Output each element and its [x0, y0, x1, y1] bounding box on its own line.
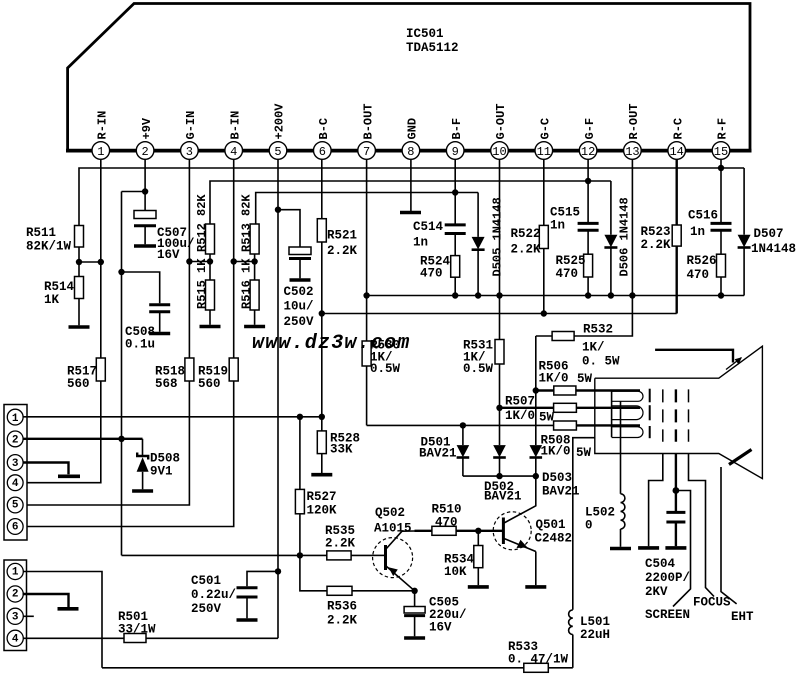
- svg-text:R521: R521: [327, 229, 357, 243]
- wire R531 to R507 row: [496, 405, 502, 411]
- wire FOCUS lead: [689, 454, 732, 610]
- svg-text:2: 2: [141, 145, 148, 159]
- connector P1 pin 6: [7, 519, 23, 535]
- ground C507: [134, 244, 156, 248]
- wire C508 elbow: [122, 272, 160, 303]
- ground C502: [290, 278, 311, 282]
- svg-text:15: 15: [714, 145, 728, 159]
- svg-text:250V: 250V: [191, 602, 222, 616]
- ground G1: [638, 546, 659, 550]
- EHT anode stroke: [729, 450, 752, 465]
- pin 3 G-IN: [181, 111, 199, 160]
- pin 7 B-OUT: [358, 103, 376, 159]
- capacitor C502: [284, 247, 315, 329]
- svg-text:R511: R511: [26, 226, 56, 240]
- svg-text:14: 14: [669, 145, 683, 159]
- svg-text:2.2K: 2.2K: [641, 238, 672, 252]
- ground C504: [665, 546, 686, 550]
- pin 6 B-C: [314, 118, 332, 159]
- wire SCREEN lead: [645, 491, 691, 623]
- wire pin15 R-F line: [720, 159, 722, 223]
- pin 4 B-IN: [225, 111, 243, 160]
- resistor R531: [463, 339, 504, 408]
- svg-text:0.22u/: 0.22u/: [191, 588, 236, 602]
- resistor R521: [317, 219, 357, 258]
- svg-text:1K/0: 1K/0: [539, 372, 569, 386]
- svg-text:2KV: 2KV: [645, 585, 668, 599]
- svg-text:EHT: EHT: [731, 610, 754, 624]
- svg-text:R527: R527: [307, 490, 337, 504]
- diode D501: [419, 425, 469, 476]
- svg-text:G-OUT: G-OUT: [494, 103, 508, 139]
- wire C502 elbow: [278, 210, 300, 247]
- connector P1 pin 5: [7, 497, 23, 513]
- wire P1-2 to D508: [23, 436, 143, 442]
- svg-text:G-F: G-F: [583, 118, 597, 140]
- svg-text:5: 5: [274, 145, 281, 159]
- wire R530 to R508 row: [367, 422, 554, 428]
- connector P2 pin 1: [7, 563, 23, 579]
- svg-text:R532: R532: [583, 323, 613, 337]
- svg-text:1K: 1K: [44, 293, 60, 307]
- connector P1 pin 1: [7, 409, 23, 425]
- resistor R526: [687, 254, 726, 296]
- capacitor C516: [688, 209, 732, 255]
- svg-text:R510: R510: [432, 503, 462, 517]
- svg-text:Q502: Q502: [375, 506, 405, 520]
- svg-text:L501: L501: [580, 615, 610, 629]
- svg-text:0. 47/1W: 0. 47/1W: [508, 653, 569, 667]
- wire net B-F rail: [256, 193, 478, 225]
- wire pin13 R-OUT line: [574, 159, 632, 336]
- svg-text:IC501: IC501: [406, 27, 444, 41]
- resistor R524: [420, 255, 460, 296]
- svg-text:0.5W: 0.5W: [370, 362, 401, 376]
- svg-text:13: 13: [625, 145, 639, 159]
- svg-text:560: 560: [198, 377, 221, 391]
- pin 12 G-F: [579, 118, 597, 159]
- node R506 feed: [533, 387, 539, 393]
- ground R514: [69, 325, 90, 329]
- svg-text:B-F: B-F: [450, 118, 464, 140]
- svg-text:16V: 16V: [157, 248, 180, 262]
- svg-text:82K/1W: 82K/1W: [26, 240, 72, 254]
- svg-text:R515 1K: R515 1K: [195, 258, 209, 309]
- connector P2 pin 4: [7, 630, 23, 646]
- svg-text:1: 1: [12, 566, 19, 578]
- ground pin8: [400, 211, 421, 215]
- svg-text:BAV21: BAV21: [484, 490, 522, 504]
- svg-text:250V: 250V: [284, 315, 315, 329]
- diode D502: [484, 408, 522, 504]
- svg-text:+200V: +200V: [273, 103, 287, 140]
- resistor R535: [325, 524, 356, 560]
- svg-text:0.5W: 0.5W: [463, 362, 494, 376]
- wire R511-R514 to pin1: [76, 259, 104, 265]
- wire pin2 to C507/C508 elbow: [122, 191, 146, 193]
- wire pin12 G-F line: [587, 159, 589, 223]
- wire pin10 G-OUT line: [499, 159, 501, 339]
- svg-text:470: 470: [435, 516, 458, 530]
- svg-text:11: 11: [537, 145, 551, 159]
- wire G2 screen feed arrow: [655, 350, 742, 370]
- svg-text:3: 3: [12, 612, 19, 624]
- svg-text:5W: 5W: [576, 446, 592, 460]
- wire R513-R516 to pin4: [231, 258, 258, 264]
- resistor R536: [327, 586, 358, 627]
- wire pin11 G-C line: [543, 159, 545, 313]
- wire G2 to C504: [673, 454, 680, 513]
- resistor R532: [536, 323, 620, 369]
- pin 8 GND: [402, 118, 420, 159]
- svg-text:R513 82K: R513 82K: [240, 194, 254, 252]
- ground C505: [404, 636, 425, 640]
- svg-text:6: 6: [319, 145, 326, 159]
- svg-text:D503: D503: [542, 471, 572, 485]
- svg-text:D507: D507: [754, 227, 784, 241]
- wire R512-R515 to pin3: [186, 258, 213, 264]
- svg-text:C501: C501: [191, 574, 221, 588]
- pin 5 +200V: [269, 103, 287, 160]
- svg-text:A1015: A1015: [374, 522, 412, 536]
- svg-text:B-C: B-C: [317, 118, 331, 140]
- svg-text:C504: C504: [645, 557, 676, 571]
- inductor L501: [569, 610, 610, 668]
- svg-text:Q501: Q501: [536, 518, 566, 532]
- wire pin4 B-IN line: [23, 159, 234, 526]
- pin 14 R-C: [668, 118, 686, 159]
- svg-text:R525: R525: [556, 254, 586, 268]
- ground R515: [200, 325, 221, 329]
- svg-text:3: 3: [12, 458, 19, 470]
- capacitor C507: [134, 211, 195, 263]
- resistor R508: [541, 421, 641, 460]
- svg-text:5W: 5W: [539, 411, 555, 425]
- svg-text:0. 5W: 0. 5W: [582, 355, 620, 369]
- pin 15 R-F: [712, 118, 730, 159]
- wire P2-1 heater feed: [23, 572, 102, 668]
- resistor R513: [240, 194, 260, 280]
- capacitor C504: [645, 512, 690, 599]
- ground Q501 emitter: [525, 585, 546, 589]
- svg-text:0.1u: 0.1u: [125, 338, 155, 352]
- svg-text:1n: 1n: [690, 225, 705, 239]
- node Q502 emitter / C505: [411, 588, 417, 594]
- svg-text:10u/: 10u/: [284, 300, 314, 314]
- svg-text:R536: R536: [327, 600, 357, 614]
- wire diode common rail: [463, 473, 539, 479]
- IC U501 outline: [66, 4, 752, 151]
- pin 11 G-C: [535, 118, 553, 159]
- svg-text:4: 4: [230, 145, 237, 159]
- wire EHT lead: [721, 467, 754, 624]
- svg-text:6: 6: [12, 522, 19, 534]
- svg-text:2.2K: 2.2K: [325, 537, 356, 551]
- resistor R525: [556, 254, 593, 296]
- CRT heater link bar: [611, 391, 613, 437]
- svg-text:560: 560: [67, 377, 90, 391]
- svg-text:B-OUT: B-OUT: [361, 103, 375, 139]
- watermark: [252, 332, 410, 355]
- capacitor C501: [191, 571, 278, 618]
- wire +9V vertical rail: [121, 192, 123, 556]
- ground P2-2: [58, 607, 79, 611]
- wire P2-4 +200V feed: [23, 637, 278, 639]
- svg-text:4: 4: [12, 634, 19, 646]
- svg-text:SCREEN: SCREEN: [645, 608, 690, 622]
- svg-text:D505 1N4148: D505 1N4148: [491, 197, 505, 276]
- wire pin2 stub: [144, 159, 146, 210]
- resistor R533: [508, 640, 569, 672]
- svg-text:5W: 5W: [577, 372, 593, 386]
- svg-text:470: 470: [420, 267, 443, 281]
- CRT cathode cup 2: [612, 405, 650, 420]
- svg-text:1: 1: [12, 413, 19, 425]
- diode D505: [472, 193, 505, 296]
- resistor R512: [195, 194, 215, 280]
- grid G3 dashed: [688, 389, 690, 441]
- resistor R519: [198, 358, 238, 391]
- svg-text:1K/: 1K/: [582, 341, 605, 355]
- svg-text:33K: 33K: [330, 443, 353, 457]
- svg-text:C502: C502: [284, 285, 314, 299]
- svg-text:FOCUS: FOCUS: [693, 596, 731, 610]
- pin 10 G-OUT: [491, 103, 509, 159]
- svg-text:R514: R514: [44, 280, 75, 294]
- resistor R522: [511, 225, 549, 256]
- wire pin7 B-OUT line: [366, 159, 368, 425]
- connector P1 pin 3: [7, 455, 23, 471]
- svg-text:2200P/: 2200P/: [645, 571, 690, 585]
- wire P1-3 to ground: [23, 463, 69, 475]
- node G-F rail junction: [585, 178, 591, 184]
- svg-text:C515: C515: [550, 206, 580, 220]
- svg-text:R-OUT: R-OUT: [627, 103, 641, 139]
- wire heater drop to L502: [620, 401, 622, 494]
- connector P1 box: [4, 405, 27, 541]
- wire R532 to R506 riser: [535, 336, 537, 391]
- wire cutoff rail: [319, 310, 677, 316]
- resistor R527: [295, 417, 337, 556]
- resistor R514: [44, 277, 84, 326]
- inductor L502: [585, 494, 625, 547]
- resistor R530: [362, 339, 400, 377]
- resistor R511: [26, 226, 84, 277]
- node B-F rail junction: [452, 189, 458, 195]
- wire P1-1 to R527/R528: [23, 414, 325, 420]
- svg-text:L502: L502: [585, 506, 615, 520]
- svg-text:16V: 16V: [429, 621, 452, 635]
- diode D507: [738, 168, 796, 296]
- wire L501 to heater: [573, 438, 595, 610]
- svg-text:12: 12: [581, 145, 595, 159]
- transistor Q502: [373, 506, 415, 591]
- svg-text:1K/0: 1K/0: [505, 409, 535, 423]
- svg-text:R-IN: R-IN: [96, 111, 110, 140]
- svg-text:B-IN: B-IN: [228, 111, 242, 140]
- wire P2-2 to ground: [23, 594, 69, 608]
- svg-text:7: 7: [363, 145, 370, 159]
- pin 13 R-OUT: [624, 103, 642, 159]
- svg-text:G-IN: G-IN: [184, 111, 198, 140]
- capacitor C515: [550, 206, 599, 255]
- resistor R515: [195, 258, 215, 325]
- node C508 tap: [118, 269, 124, 275]
- svg-text:C514: C514: [413, 220, 444, 234]
- connector P2 pin 2: [7, 586, 23, 602]
- diode D506: [604, 181, 631, 296]
- svg-text:D506 1N4148: D506 1N4148: [618, 197, 632, 276]
- wire net G-F rail: [210, 181, 611, 224]
- svg-text:R-C: R-C: [671, 118, 685, 140]
- svg-text:2.2K: 2.2K: [511, 243, 542, 257]
- resistor R528: [317, 417, 360, 473]
- svg-text:GND: GND: [406, 118, 420, 140]
- svg-text:4: 4: [12, 478, 19, 490]
- resistor R510: [415, 503, 479, 536]
- svg-text:2.2K: 2.2K: [327, 244, 358, 258]
- svg-text:G-C: G-C: [539, 118, 553, 140]
- svg-text:2.2K: 2.2K: [327, 614, 358, 628]
- grid G2 dashed: [675, 389, 677, 441]
- svg-text:120K: 120K: [307, 504, 338, 518]
- wire pin14 R-C line: [676, 159, 678, 225]
- svg-text:BAV21: BAV21: [542, 485, 580, 499]
- svg-text:0: 0: [585, 519, 593, 533]
- resistor R507: [500, 395, 641, 425]
- svg-text:BAV21: BAV21: [419, 447, 457, 461]
- svg-text:1K/0: 1K/0: [541, 445, 571, 459]
- wire net R-F top rail: [79, 168, 744, 226]
- svg-text:10: 10: [492, 145, 506, 159]
- svg-text:2: 2: [12, 434, 19, 446]
- node Q501 base: [475, 528, 481, 534]
- svg-text:R507: R507: [505, 395, 535, 409]
- svg-text:2: 2: [12, 589, 19, 601]
- ground L502: [610, 547, 631, 551]
- node C502 tap: [275, 207, 281, 213]
- svg-text:R512 82K: R512 82K: [195, 194, 209, 252]
- wire heater bottom run: [102, 667, 573, 669]
- wire pin6 B-C line: [321, 159, 323, 417]
- ground R516: [244, 325, 265, 329]
- CRT cathode cup 3: [612, 426, 650, 438]
- svg-text:33/1W: 33/1W: [118, 623, 156, 637]
- svg-text:R516 1K: R516 1K: [240, 258, 254, 309]
- connector P1 pin 2: [7, 431, 23, 447]
- node C501 tap: [275, 568, 281, 574]
- svg-text:TDA5112: TDA5112: [406, 41, 459, 55]
- svg-text:1N4148: 1N4148: [751, 242, 796, 256]
- svg-text:470: 470: [687, 268, 710, 282]
- ground C501: [237, 618, 258, 622]
- wire pin3 G-IN line: [23, 159, 189, 505]
- connector P1 pin 4: [7, 475, 23, 491]
- ground R528: [311, 473, 332, 477]
- resistor R506: [536, 360, 640, 396]
- resistor R516: [240, 258, 260, 325]
- svg-text:568: 568: [155, 377, 178, 391]
- pin 1 R-IN: [92, 111, 110, 160]
- capacitor C505: [404, 591, 466, 637]
- svg-text:10K: 10K: [444, 565, 467, 579]
- pin 9 B-F: [446, 118, 464, 159]
- svg-text:C2482: C2482: [535, 532, 573, 546]
- svg-text:R522: R522: [511, 227, 541, 241]
- svg-text:D508: D508: [150, 452, 180, 466]
- node +9V junction pin2: [142, 188, 148, 194]
- pin 2 +9V: [136, 117, 154, 159]
- ground D508: [132, 489, 153, 493]
- wire G1 to ground: [649, 454, 663, 547]
- wire P2-3 stub: [23, 615, 34, 617]
- svg-text:R526: R526: [687, 254, 717, 268]
- wire feedback bottom rail: [363, 292, 744, 298]
- capacitor C514: [413, 220, 466, 256]
- wire R536 branch: [300, 555, 415, 590]
- diode D503: [530, 391, 580, 499]
- ground P1-3: [58, 474, 80, 478]
- svg-text:1: 1: [97, 145, 104, 159]
- CRT cathode cup 1: [612, 389, 650, 403]
- connector P2 pin 3: [7, 608, 23, 624]
- svg-text:5: 5: [12, 500, 19, 512]
- svg-text:R-F: R-F: [716, 118, 730, 140]
- zener D508: [137, 439, 180, 490]
- svg-text:+9V: +9V: [140, 117, 154, 139]
- grid G1 dashed: [662, 389, 664, 441]
- svg-text:9: 9: [452, 145, 459, 159]
- svg-text:C516: C516: [688, 209, 718, 223]
- wire pin5 +200V line: [277, 159, 279, 638]
- svg-text:8: 8: [407, 145, 414, 159]
- resistor R534: [444, 531, 483, 585]
- resistor R517: [67, 358, 105, 391]
- svg-text:1n: 1n: [413, 236, 428, 250]
- ground R534: [468, 585, 489, 589]
- CRT neck outline: [595, 346, 763, 478]
- resistor R518: [155, 358, 194, 391]
- resistor R523: [641, 225, 682, 314]
- wire +9V to Q502 base: [122, 552, 386, 558]
- ground C508: [149, 332, 170, 336]
- svg-text:1n: 1n: [550, 219, 565, 233]
- svg-text:470: 470: [556, 267, 579, 281]
- wire pin1 R-IN line: [21, 159, 101, 482]
- wire pin8 GND stub: [410, 159, 412, 211]
- svg-text:www.dz3w.com: www.dz3w.com: [252, 332, 410, 355]
- svg-text:3: 3: [186, 145, 193, 159]
- svg-text:22uH: 22uH: [580, 628, 610, 642]
- connector P2 box: [4, 560, 27, 651]
- capacitor C508: [125, 305, 170, 352]
- wire pin9 B-F line: [454, 159, 456, 225]
- node R-F rail junction: [718, 165, 724, 171]
- transistor Q501: [478, 476, 572, 585]
- resistor R501: [118, 610, 156, 643]
- svg-text:R523: R523: [641, 225, 671, 239]
- svg-text:9V1: 9V1: [150, 465, 173, 479]
